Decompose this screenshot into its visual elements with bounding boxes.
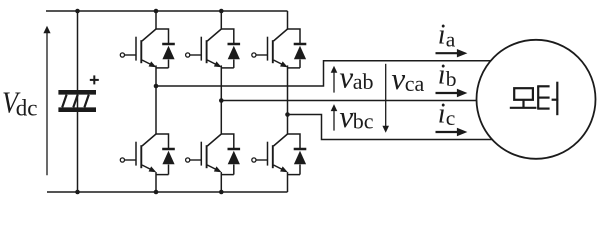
svg-text:i: i <box>438 99 446 130</box>
label v_ab <box>339 60 373 95</box>
transistor Q1 (IGBT) <box>120 29 156 67</box>
label Vdc <box>2 85 37 121</box>
wire <box>156 134 169 192</box>
node (leg 1 top) <box>154 9 159 14</box>
label v_bc <box>339 99 373 134</box>
svg-text:i: i <box>438 20 446 51</box>
svg-text:ab: ab <box>353 69 374 94</box>
node (phase c) <box>285 112 290 117</box>
transistor Q4 (IGBT) <box>120 134 156 172</box>
wire (leg 1 collector drop) <box>155 11 157 29</box>
arrow v_bc (line voltage) <box>331 104 338 131</box>
wire (leg 2 collector drop) <box>220 11 222 29</box>
wire (phase b output) <box>221 100 476 102</box>
label i_b <box>438 60 457 92</box>
svg-text:c: c <box>446 106 456 130</box>
arrow Vdc (voltage reference) <box>43 26 50 176</box>
diode D6 (freewheel) <box>294 149 307 175</box>
arrow i_b (phase current) <box>436 89 468 97</box>
wire (DC bus left) <box>77 11 79 192</box>
wire (positive DC rail) <box>46 10 288 12</box>
node (leg 2 top) <box>219 9 224 14</box>
wire (leg 2 lower drop) <box>220 101 222 135</box>
diode D5 (freewheel) <box>228 149 241 175</box>
label i_c <box>438 99 456 131</box>
node (leg 1 bottom) <box>154 190 159 195</box>
diode D2 (freewheel) <box>228 44 241 68</box>
battery B1 (DC source) <box>58 92 96 109</box>
node (phase a) <box>154 84 159 89</box>
diode D3 (freewheel) <box>294 44 307 68</box>
wire <box>288 134 301 192</box>
wire <box>288 29 301 115</box>
transistor Q5 (IGBT) <box>186 134 222 172</box>
svg-text:i: i <box>438 60 446 91</box>
svg-text:ca: ca <box>405 71 425 96</box>
motor M (모터) <box>477 40 596 159</box>
wire (phase a output) <box>156 61 491 86</box>
transistor Q3 (IGBT) <box>252 29 288 67</box>
svg-text:a: a <box>446 27 456 51</box>
label i_a <box>438 20 456 52</box>
node (leg 2 bottom) <box>219 190 224 195</box>
wire (leg 3 lower drop) <box>287 115 289 135</box>
label + (polarity) <box>90 75 99 84</box>
svg-text:v: v <box>339 99 353 134</box>
wire <box>221 29 234 101</box>
arrow i_a (phase current) <box>436 49 468 57</box>
wire (negative DC rail) <box>47 191 288 193</box>
arrow i_c (phase current) <box>436 128 468 136</box>
svg-text:b: b <box>446 67 457 91</box>
wire (phase c output) <box>288 115 493 140</box>
svg-text:v: v <box>391 61 405 96</box>
svg-text:bc: bc <box>353 108 374 133</box>
diode D4 (freewheel) <box>162 149 175 175</box>
label v_ca <box>391 61 424 96</box>
label 모터 (motor) <box>510 82 558 116</box>
wire <box>156 29 169 86</box>
svg-text:v: v <box>339 60 353 95</box>
transistor Q2 (IGBT) <box>186 29 222 67</box>
node (top-left junction) <box>75 9 80 14</box>
arrow v_ca (line voltage) <box>382 64 389 133</box>
transistor Q6 (IGBT) <box>252 134 288 172</box>
wire <box>221 134 234 192</box>
wire (leg 1 lower drop) <box>155 86 157 134</box>
node (bottom-left junction) <box>75 190 80 195</box>
diode D1 (freewheel) <box>162 44 175 68</box>
arrow v_ab (line voltage) <box>331 66 338 93</box>
svg-text:dc: dc <box>16 95 38 120</box>
wire (leg 3 collector drop) <box>287 11 289 29</box>
node (phase b) <box>219 98 224 103</box>
